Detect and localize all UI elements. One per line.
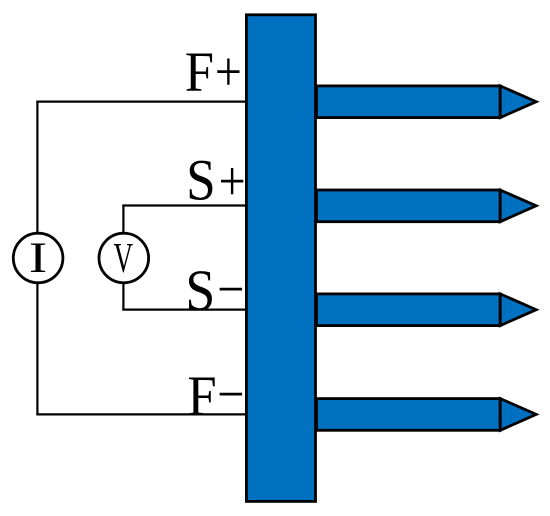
wire left vertical (I branch)	[36, 102, 38, 415]
probe arrow 3 shaft (S-)	[317, 294, 501, 326]
svg-text:F: F	[188, 364, 217, 428]
svg-text:+: +	[219, 150, 246, 213]
label S- : letter S	[185, 259, 215, 323]
svg-text:I: I	[29, 234, 47, 282]
voltmeter V (circle)	[99, 233, 149, 283]
label F+ : letter F	[185, 40, 214, 104]
probe arrow 3 head	[500, 294, 536, 326]
ammeter label I	[29, 234, 47, 282]
ammeter I (circle)	[13, 233, 63, 283]
label S+ : plus sign	[219, 150, 246, 213]
probe arrow 1 shaft (F+)	[317, 86, 501, 118]
wire V vertical (V branch)	[122, 206, 124, 310]
wire S- horizontal	[122, 309, 246, 311]
probe arrow 2 head	[500, 190, 536, 222]
label F+ : plus sign	[215, 41, 242, 104]
svg-text:V: V	[114, 234, 134, 282]
voltmeter label V	[114, 234, 134, 282]
label F- : minus sign	[217, 363, 244, 425]
svg-text:−: −	[217, 363, 244, 425]
label S+ : letter S	[186, 149, 216, 212]
svg-text:S: S	[186, 149, 216, 212]
wire F- horizontal	[36, 413, 246, 415]
wire S+ horizontal	[122, 204, 246, 206]
svg-text:S: S	[185, 259, 215, 323]
probe arrow 2 shaft (S+)	[317, 190, 501, 222]
wire F+ horizontal	[36, 100, 246, 102]
svg-text:−: −	[217, 259, 244, 321]
label S- : minus sign	[217, 259, 244, 321]
svg-text:F: F	[185, 40, 214, 104]
probe arrow 1 head	[500, 86, 536, 118]
svg-text:+: +	[215, 41, 242, 104]
probe arrow 4 head	[500, 399, 536, 431]
sample bar (blue rectangle)	[246, 15, 315, 502]
label F- : letter F	[188, 364, 217, 428]
probe arrow 4 shaft (F-)	[317, 399, 501, 431]
